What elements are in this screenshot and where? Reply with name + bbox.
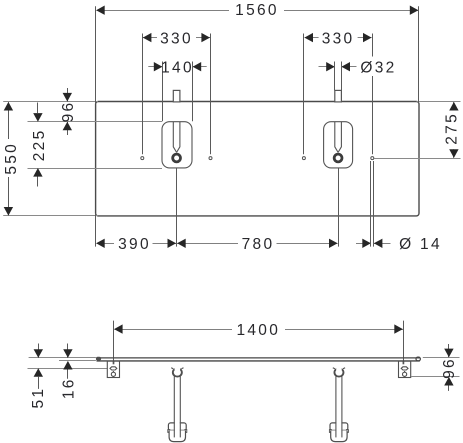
console slab (front view) top line bbox=[97, 357, 420, 359]
svg-text:330: 330 bbox=[322, 30, 355, 47]
dimension 51 (front left) bbox=[30, 344, 47, 409]
dimension 330 left bbox=[143, 30, 211, 154]
left faucet plate bbox=[162, 122, 192, 168]
svg-text:51: 51 bbox=[30, 387, 47, 409]
extension line: plate top extended left (for 96 / 225 dims) bbox=[28, 121, 163, 123]
extension line: bracket bottom extended right (for 96) bbox=[411, 376, 459, 378]
console slab bottom line bbox=[97, 360, 420, 362]
svg-text:16: 16 bbox=[60, 377, 77, 399]
extension line: left faucet centre down (for 390/780) bbox=[176, 168, 178, 246]
right faucet tab (above back edge) bbox=[335, 90, 342, 102]
extension lines: Ø14 hole sides down bbox=[370, 161, 372, 247]
extension line: slab top extended right (for 96) bbox=[423, 357, 460, 359]
dimension 330 right bbox=[304, 30, 373, 154]
right drain trap bbox=[329, 366, 348, 442]
collar bbox=[173, 368, 182, 376]
pipe bbox=[336, 374, 341, 437]
dimension Ø32 (right faucet hole) bbox=[319, 59, 397, 90]
svg-text:330: 330 bbox=[160, 30, 193, 47]
svg-text:1560: 1560 bbox=[235, 2, 279, 19]
right faucet keyhole ring bbox=[334, 154, 342, 162]
extension line: right hole to right edge (for 275 dim) bbox=[374, 158, 460, 160]
dimension 390 bbox=[96, 236, 176, 253]
extension line: slab top extended left (for 51/16) bbox=[29, 357, 96, 359]
left faucet slot bbox=[173, 122, 180, 153]
svg-text:275: 275 bbox=[444, 112, 461, 145]
slab left end cap bbox=[96, 357, 101, 361]
left faucet keyhole ring bbox=[173, 154, 181, 162]
cup bbox=[331, 430, 347, 441]
extension line: plate bottom extended left (for 225 dim) bbox=[28, 168, 163, 170]
extension line: right faucet centre down (for 780) bbox=[338, 168, 340, 246]
svg-text:390: 390 bbox=[118, 236, 151, 253]
collar bbox=[334, 368, 343, 376]
flange bbox=[330, 423, 348, 431]
svg-text:140: 140 bbox=[161, 59, 194, 76]
left wall bracket bbox=[107, 361, 119, 378]
small hole 3 (right group left) bbox=[302, 157, 305, 160]
svg-text:550: 550 bbox=[3, 142, 20, 175]
extension line: slab bottom extended left (for 16) bbox=[59, 360, 96, 362]
extension line: bracket slot level extended left (for 51) bbox=[28, 368, 108, 370]
dimension Ø14 bbox=[356, 236, 442, 253]
small hole 1 (left group left) bbox=[141, 157, 144, 160]
countertop outline (plan view) bbox=[96, 102, 419, 216]
svg-text:96: 96 bbox=[60, 101, 77, 123]
cup bbox=[169, 430, 185, 441]
right faucet slot bbox=[335, 122, 342, 153]
small hole 4 (right group right, Ø14) bbox=[371, 157, 374, 160]
dimension 1560 bbox=[96, 2, 419, 103]
extension line: bottom edge extended left (for 550 dim) bbox=[3, 215, 98, 217]
dimension 225 (left, plate top to plate bottom) bbox=[31, 103, 48, 187]
extension line: top edge extended left (for 550 / 96 dims) bbox=[3, 101, 98, 103]
svg-text:225: 225 bbox=[31, 129, 48, 162]
small hole 2 (left group right) bbox=[209, 157, 212, 160]
left faucet tab (above back edge) bbox=[173, 90, 180, 102]
pipe bbox=[175, 374, 180, 437]
dimension 275 (right, vertical) bbox=[444, 102, 461, 158]
extension line: top edge extended right (for 275 dim) bbox=[417, 101, 461, 103]
right wall bracket bbox=[399, 361, 411, 378]
left drain trap bbox=[168, 366, 187, 442]
svg-text:Ø32: Ø32 bbox=[360, 59, 396, 76]
right faucet plate bbox=[324, 122, 353, 168]
dimension 96 (left, back edge to plate top) bbox=[60, 88, 77, 135]
slab right end cap bbox=[416, 357, 420, 361]
dimension 140 (left plate width) bbox=[148, 59, 206, 121]
dimension 550 (left, vertical) bbox=[3, 102, 20, 216]
dimension 1400 bbox=[114, 321, 404, 365]
svg-text:780: 780 bbox=[242, 236, 275, 253]
dimension 780 bbox=[177, 236, 338, 253]
svg-text:Ø 14: Ø 14 bbox=[399, 236, 442, 253]
extension line: countertop left corner down (for 390) bbox=[95, 214, 97, 247]
dimension 16 (front left, slab thickness) bbox=[60, 344, 77, 400]
svg-text:96: 96 bbox=[441, 357, 458, 379]
svg-text:1400: 1400 bbox=[236, 322, 280, 339]
dimension 96 (front right) bbox=[441, 344, 458, 391]
flange bbox=[168, 423, 186, 431]
